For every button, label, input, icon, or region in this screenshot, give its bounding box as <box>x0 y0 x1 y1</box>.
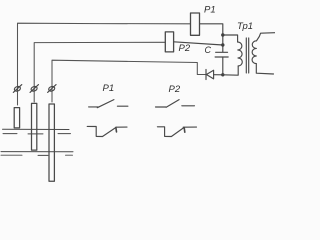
waveform P2 <box>157 127 196 137</box>
diode VD <box>206 70 214 80</box>
electrode rod E3 <box>49 104 54 181</box>
svg-text:Р1: Р1 <box>103 83 115 94</box>
relay coil P2 <box>165 32 173 52</box>
svg-text:Р2: Р2 <box>169 84 181 95</box>
transformer core <box>245 38 247 73</box>
node B junction dot <box>221 73 224 76</box>
electrode rod E2 <box>32 103 37 150</box>
wire branch node A to transformer primary top <box>223 35 238 42</box>
wire P1 to node A <box>200 24 223 52</box>
svg-text:С: С <box>205 45 212 55</box>
node A junction dot <box>221 33 224 36</box>
lower liquid level line <box>1 151 73 153</box>
capacitor C <box>215 52 228 75</box>
terminal symbol electrode1 <box>13 85 21 93</box>
wire node B to primary bottom <box>223 66 238 75</box>
wire P2 to node A bus <box>174 42 223 45</box>
wire diode to node B <box>214 74 223 76</box>
svg-text:Р1: Р1 <box>204 5 216 16</box>
transformer Tp1 primary winding <box>238 42 243 66</box>
contact P1 <box>89 100 128 108</box>
upper liquid level line <box>3 128 70 130</box>
contact P2 <box>156 100 195 108</box>
terminal symbol electrode2 <box>30 85 39 93</box>
wire secondary bottom lead <box>256 64 273 74</box>
transformer secondary winding <box>252 41 256 64</box>
upper level dashes <box>3 133 71 135</box>
wire secondary top lead <box>257 33 276 41</box>
terminal symbol electrode3 <box>48 85 57 93</box>
waveform P1 <box>87 126 127 136</box>
svg-text:Тр1: Тр1 <box>237 21 253 32</box>
wire electrode3 riser and bus <box>52 60 206 102</box>
wire electrode2 riser and bus <box>34 42 165 102</box>
wire electrode1 riser and top bus <box>18 23 191 105</box>
node junction dot wire2 <box>221 43 224 46</box>
lower level dashes <box>1 154 73 156</box>
electrode rod E1 <box>14 108 19 128</box>
svg-text:Р2: Р2 <box>179 43 191 54</box>
relay coil P1 <box>191 13 200 35</box>
